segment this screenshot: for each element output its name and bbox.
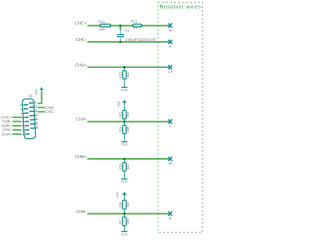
- svg-text:R13: R13: [118, 111, 122, 117]
- svg-text:10k: 10k: [126, 164, 130, 170]
- svg-text:R16: R16: [118, 202, 122, 208]
- svg-text:X1: X1: [28, 94, 32, 98]
- svg-text:10: 10: [34, 105, 37, 108]
- svg-text:3k3: 3k3: [126, 112, 130, 117]
- svg-text:GND: GND: [121, 142, 129, 146]
- svg-text:CHA+: CHA+: [1, 132, 12, 136]
- svg-text:GND: GND: [121, 233, 129, 237]
- svg-text:100nF/16V/X7R: 100nF/16V/X7R: [125, 37, 156, 42]
- svg-text:13: 13: [35, 117, 38, 120]
- svg-text:A+: A+: [169, 28, 173, 32]
- svg-text:12: 12: [35, 113, 38, 116]
- svg-text:+5V: +5V: [116, 191, 120, 198]
- svg-text:C-: C-: [169, 124, 173, 128]
- svg-text:R15: R15: [118, 164, 122, 170]
- svg-text:B-: B-: [169, 216, 172, 220]
- svg-text:R11: R11: [131, 20, 137, 24]
- svg-text:GND: GND: [121, 180, 129, 184]
- svg-text:CHB-: CHB-: [76, 209, 87, 214]
- svg-text:R17: R17: [118, 218, 122, 224]
- svg-text:14: 14: [35, 121, 38, 124]
- svg-text:GND: GND: [121, 88, 129, 92]
- svg-text:CHC-: CHC-: [45, 110, 55, 114]
- svg-text:CHC+: CHC+: [75, 21, 88, 26]
- svg-text:6k8: 6k8: [126, 219, 130, 224]
- svg-text:+5V: +5V: [34, 88, 38, 95]
- svg-text:10k: 10k: [126, 72, 130, 78]
- svg-text:C1: C1: [125, 29, 130, 33]
- svg-text:R12: R12: [118, 72, 122, 78]
- svg-text:+5V: +5V: [117, 100, 121, 107]
- svg-text:C+: C+: [168, 70, 172, 74]
- svg-text:R14: R14: [118, 126, 122, 132]
- svg-text:CHA+: CHA+: [75, 62, 87, 67]
- svg-text:180: 180: [99, 27, 105, 31]
- svg-text:Resolver wires: Resolver wires: [160, 5, 202, 11]
- svg-text:B+: B+: [169, 162, 173, 166]
- svg-text:6k8: 6k8: [126, 127, 130, 132]
- svg-text:A-: A-: [169, 45, 172, 49]
- svg-text:3k3: 3k3: [126, 202, 130, 207]
- svg-text:47: 47: [133, 26, 137, 30]
- svg-text:R10: R10: [98, 20, 104, 24]
- svg-text:15: 15: [35, 126, 38, 129]
- svg-text:CHC-: CHC-: [76, 37, 88, 42]
- svg-text:CHA-: CHA-: [76, 117, 87, 122]
- svg-text:CHB+: CHB+: [75, 154, 87, 159]
